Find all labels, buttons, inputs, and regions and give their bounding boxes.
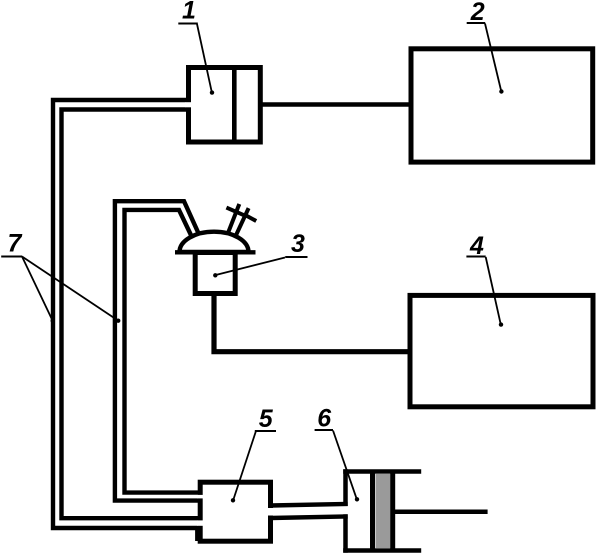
label 3 leader dot [213,273,217,277]
piston 6 gray body [376,474,391,549]
pipe box5 to cylinder 6, top wall [271,504,348,506]
svg-text:6: 6 [317,405,332,433]
label 1 leader dot [210,90,214,94]
block 1 (two-chamber cylinder) [189,68,261,143]
label 3 underline [285,256,307,258]
block 1 left-edge pipe opening [186,102,192,107]
label 5 underline [255,430,276,432]
pipe box5 to cylinder 6, bottom wall [271,516,348,518]
label 2 leader dot [499,89,503,93]
cylinder 6 top wall [343,469,421,474]
label 6 underline [315,429,333,431]
piston 6 left face [370,472,375,551]
pipe 7a inner wall [62,110,201,519]
label 6 leader dot [355,497,359,501]
cylinder 6 left wall lower segment [343,514,348,552]
svg-text:1: 1 [182,0,196,25]
break tick 1 [226,208,244,216]
piston 6 right face [390,472,395,551]
label 2 leader [485,24,501,92]
pipe 7b outer wall (left riser to dome 3) [115,201,200,500]
block 1 divider [232,68,237,143]
label 7 leader dot on pipe 7b [116,319,120,323]
break tick 2 [245,215,257,221]
label 7 leader to pipe 7b [22,257,118,321]
box 5 right-edge pipe opening [268,508,273,516]
label 3 leader [216,258,285,276]
label 5 leader [233,432,256,500]
box 5 (valve block) [200,482,270,541]
pipe stub line A above dome [228,204,240,234]
cylinder 6 bottom wall [343,548,421,553]
pipe 7b inner wall [125,210,201,493]
pipe 7a outer wall (from block 1, down left side, to block 5 bottom) [53,100,197,541]
svg-text:5: 5 [259,405,274,433]
wire block1 to box2 [260,102,411,107]
label 7 leader dot on pipe 7a [51,319,55,323]
piston rod [395,509,488,514]
label 5 leader dot [231,498,235,502]
box 2 [411,49,593,162]
label 6 leader [333,431,357,499]
label 7 underline [1,256,22,258]
svg-text:3: 3 [291,230,305,258]
label 4 leader dot [499,322,503,326]
cylinder 6 left wall upper segment [343,469,348,506]
wire dome3 to box4 [214,294,410,352]
dome 3 cap [180,232,249,252]
label 2 underline [467,22,486,24]
box 5 left-edge pipe openings [197,495,203,499]
label 4 leader [486,257,501,324]
pipe stub line B above dome [235,208,248,236]
svg-text:7: 7 [8,230,23,258]
dome 3 body [195,253,235,294]
label 1 underline [178,23,198,25]
label 7 leader to pipe 7a [22,257,52,321]
label 4 underline [466,256,485,258]
label 1 leader [197,24,212,92]
box 4 [410,295,593,406]
dome 3 flange baseline [175,250,256,254]
